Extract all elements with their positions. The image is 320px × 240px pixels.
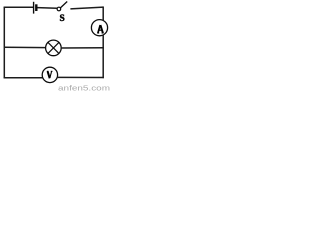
voltmeter circle — [42, 67, 57, 82]
ammeter U1 circle — [91, 20, 107, 36]
ammeter label A — [97, 25, 103, 33]
battery short plate — [35, 4, 37, 11]
wire right vertical upper (corner to ammeter) — [102, 7, 104, 21]
wire right vertical lower (ammeter to bottom corner) — [102, 35, 104, 78]
switch pivot circle — [57, 7, 61, 11]
voltmeter label V — [47, 71, 53, 78]
wire middle left (junction to lamp) — [4, 46, 46, 48]
battery long plate — [33, 2, 35, 14]
switch blade — [60, 2, 67, 8]
wire middle right (lamp to right vertical) — [61, 47, 104, 49]
wire bottom left (corner to voltmeter) — [4, 77, 43, 79]
svg-text:anfen5.com: anfen5.com — [58, 84, 110, 93]
svg-text:S: S — [59, 14, 64, 24]
lamp X diagonal 2 — [48, 42, 59, 53]
wire battery to switch — [38, 7, 58, 10]
wire left vertical — [3, 7, 5, 78]
wire bottom right (voltmeter to right corner) — [57, 76, 104, 78]
wire switch to top-right corner — [70, 7, 103, 9]
lamp circle — [46, 40, 62, 56]
lamp X diagonal 1 — [48, 42, 59, 53]
wire top left (corner to battery) — [4, 6, 34, 8]
